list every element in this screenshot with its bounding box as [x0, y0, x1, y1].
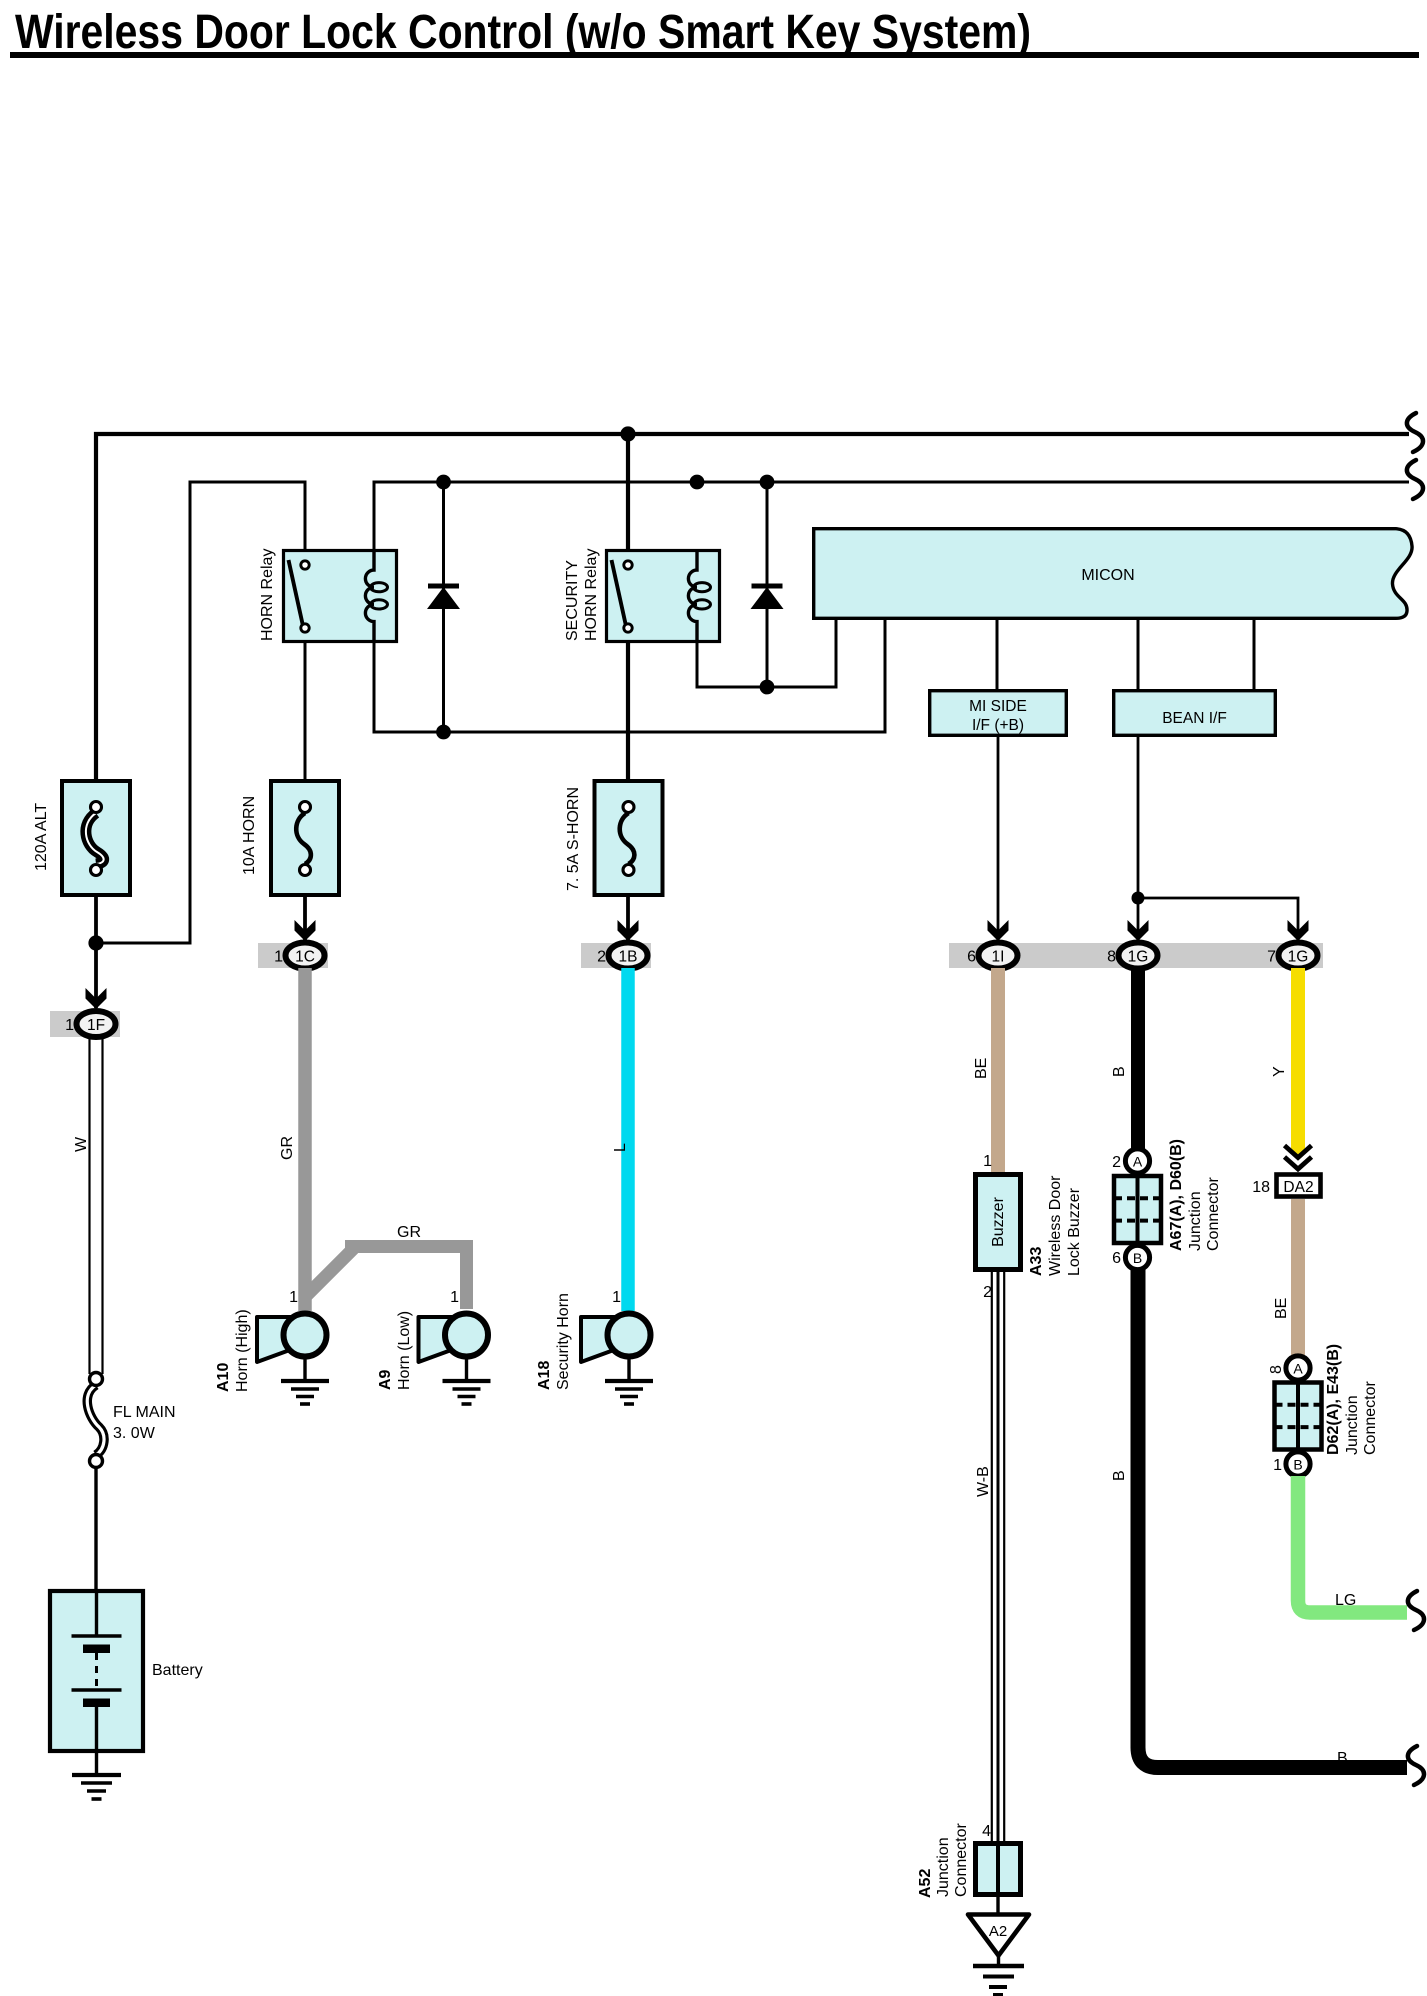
arrow into connector 1I — [988, 920, 1009, 941]
connector 1I — [979, 943, 1018, 969]
svg-text:BE: BE — [1273, 1298, 1290, 1319]
junction: diode D2 to coil return — [760, 680, 775, 695]
wire: HORN relay switch to 10A HORN fuse — [304, 632, 307, 779]
svg-text:Lock Buzzer: Lock Buzzer — [1066, 1187, 1083, 1276]
junction: +B bus to SECURITY HORN relay switch — [620, 426, 635, 441]
svg-text:A67(A), D60(B): A67(A), D60(B) — [1168, 1139, 1185, 1251]
svg-text:B: B — [1337, 1750, 1348, 1767]
break symbol: B wire right end — [1408, 1746, 1424, 1785]
wire: SECURITY HORN relay switch to 7.5A S-HORN fuse — [626, 632, 630, 779]
svg-text:8: 8 — [1268, 1365, 1285, 1374]
wire: +B bus to SECURITY HORN relay switch — [626, 434, 630, 561]
junction: BEAN I/F output branch — [1132, 892, 1145, 905]
wire B: connector 1G to junction connector A67 — [1131, 968, 1145, 1150]
svg-text:1: 1 — [65, 1017, 74, 1034]
connector 1F — [77, 1011, 116, 1037]
fusible link FL MAIN 3.0W — [87, 1373, 104, 1468]
svg-text:1F: 1F — [87, 1017, 105, 1034]
wire: FL MAIN to battery — [94, 1467, 97, 1590]
svg-text:A: A — [1133, 1154, 1143, 1170]
junction connector D62(A), E43(B) — [1268, 1356, 1322, 1476]
horn A18 (Security Horn) — [581, 1314, 651, 1363]
buzzer A33 — [976, 1175, 1021, 1270]
svg-text:LG: LG — [1335, 1592, 1356, 1609]
svg-text:1: 1 — [274, 949, 283, 966]
svg-text:DA2: DA2 — [1283, 1179, 1313, 1196]
svg-text:B: B — [1133, 1250, 1142, 1266]
connector band 1B — [581, 943, 651, 968]
ground at horn A10 — [281, 1357, 329, 1405]
svg-text:7. 5A S-HORN: 7. 5A S-HORN — [565, 787, 582, 891]
wire W-B: buzzer to A52 junction connector (white-black wire) — [992, 1272, 1004, 1841]
svg-text:4: 4 — [982, 1823, 991, 1840]
wire: 7.5A S-HORN fuse to connector 1B — [626, 897, 630, 940]
svg-text:Wireless Door: Wireless Door — [1047, 1175, 1064, 1276]
double arrow into DA2 — [1285, 1146, 1312, 1170]
svg-text:I/F (+B): I/F (+B) — [972, 717, 1024, 734]
pin B of A67 — [1125, 1245, 1149, 1269]
relay SECURITY HORN Relay switch pin top — [624, 561, 632, 569]
svg-text:B: B — [1293, 1457, 1302, 1473]
break symbol: LG wire right end — [1408, 1591, 1424, 1630]
fuse 120A ALT — [62, 781, 130, 895]
relay HORN Relay switch blade — [289, 560, 304, 626]
svg-text:BE: BE — [973, 1058, 990, 1079]
svg-text:Connector: Connector — [1205, 1177, 1222, 1251]
wire: diode D2 branch — [766, 482, 769, 687]
svg-text:Horn (Low): Horn (Low) — [396, 1311, 413, 1390]
diode D2 — [751, 584, 784, 610]
svg-text:A18: A18 — [536, 1361, 553, 1390]
svg-text:Connector: Connector — [953, 1823, 970, 1897]
wire: battery node to HORN relay switch — [96, 482, 305, 943]
break symbol: coil rail right edge — [1407, 460, 1423, 499]
fuse 10A HORN — [271, 781, 339, 895]
junction connector A67(A), D60(B) — [1112, 1149, 1161, 1270]
svg-text:120A ALT: 120A ALT — [33, 803, 50, 871]
svg-text:FL MAIN: FL MAIN — [113, 1404, 176, 1421]
relay SECURITY HORN Relay switch pin bottom — [624, 624, 632, 632]
wire: branch to connector 1G pin 7 — [1138, 898, 1298, 940]
ground symbol below A2 — [973, 1956, 1024, 1996]
svg-text:A52: A52 — [917, 1869, 934, 1898]
wire: SECURITY HORN relay coil return to MICON — [697, 620, 836, 687]
svg-text:1: 1 — [450, 1289, 459, 1306]
relay HORN Relay switch pin bottom — [301, 624, 309, 632]
horn A9 (Horn Low) — [419, 1314, 489, 1363]
svg-text:A9: A9 — [377, 1369, 394, 1390]
diode D1 — [427, 584, 460, 610]
wire GR: branch to horn A9 — [305, 1247, 467, 1310]
svg-text:1G: 1G — [1128, 949, 1149, 966]
arrow into connector 1G pin 7 — [1288, 920, 1309, 941]
svg-text:HORN Relay: HORN Relay — [259, 549, 276, 641]
svg-text:SECURITY: SECURITY — [564, 560, 581, 641]
wire Y: connector 1G to DA2 — [1291, 968, 1305, 1149]
svg-text:1B: 1B — [619, 949, 638, 966]
svg-text:B: B — [1111, 1066, 1128, 1077]
svg-text:W: W — [73, 1136, 90, 1152]
svg-text:Junction: Junction — [1344, 1395, 1361, 1455]
svg-text:Junction: Junction — [1187, 1191, 1204, 1251]
svg-text:2: 2 — [597, 949, 606, 966]
svg-text:1: 1 — [289, 1289, 298, 1306]
pin A of A67 — [1125, 1149, 1149, 1173]
break symbol: +B bus right edge — [1407, 413, 1423, 452]
wire: 120A ALT fuse to connector 1F — [94, 897, 98, 1008]
wire: MICON to BEAN I/F right pin — [1253, 620, 1256, 689]
pin A of D62 — [1286, 1356, 1310, 1380]
svg-text:HORN Relay: HORN Relay — [583, 549, 600, 641]
arrow into connector 1B — [618, 920, 639, 941]
ground point A2 — [968, 1915, 1029, 1956]
svg-text:Horn (High): Horn (High) — [234, 1309, 251, 1392]
svg-text:Security Horn: Security Horn — [555, 1293, 572, 1390]
svg-text:MI SIDE: MI SIDE — [969, 698, 1027, 715]
junction: diode D1 to coil return — [436, 725, 451, 740]
svg-text:Wireless Door Lock Control (w/: Wireless Door Lock Control (w/o Smart Ke… — [15, 6, 1031, 59]
relay SECURITY HORN Relay coil — [688, 549, 697, 643]
grid of D62 junction connector — [1275, 1383, 1322, 1450]
svg-text:Battery: Battery — [152, 1662, 203, 1679]
svg-text:Junction: Junction — [935, 1837, 952, 1897]
wire: +B bus from battery feed to right edge — [96, 434, 1409, 780]
svg-text:A33: A33 — [1028, 1247, 1045, 1276]
connector 1G pin 7 — [1279, 943, 1318, 969]
junction: rail to SECURITY relay coil — [690, 475, 705, 490]
connector band 1F — [50, 1011, 120, 1037]
svg-text:Y: Y — [1271, 1066, 1288, 1077]
svg-text:GR: GR — [279, 1136, 296, 1160]
wire: relay coil supply rail — [374, 482, 1409, 549]
svg-text:3. 0W: 3. 0W — [113, 1425, 156, 1442]
junction: battery node below 120A ALT — [88, 935, 103, 950]
wire: BEAN I/F to connector 1G pin 8 — [1137, 737, 1140, 940]
battery — [50, 1591, 143, 1751]
box MI SIDE I/F (+B) — [930, 691, 1067, 736]
svg-text:GR: GR — [397, 1224, 421, 1241]
box BEAN I/F — [1114, 691, 1276, 736]
wire: 10A HORN fuse to connector 1C — [303, 897, 307, 940]
junction connector A52 — [976, 1844, 1021, 1895]
IC MICON — [814, 529, 1412, 619]
relay HORN Relay switch pin top — [301, 561, 309, 569]
svg-text:W-B: W-B — [975, 1466, 992, 1497]
pin B of D62 — [1286, 1452, 1310, 1476]
arrow into connector 1G pin 8 — [1128, 920, 1149, 941]
relay HORN Relay coil — [365, 549, 374, 643]
ground at horn A18 — [605, 1357, 653, 1405]
svg-text:Connector: Connector — [1362, 1381, 1379, 1455]
wire B: junction connector A67 to ground splice — [1138, 1269, 1407, 1768]
svg-text:D62(A), E43(B): D62(A), E43(B) — [1325, 1344, 1342, 1455]
arrow into connector 1C — [295, 920, 316, 941]
svg-text:2: 2 — [1112, 1154, 1121, 1171]
relay SECURITY HORN Relay — [607, 549, 720, 643]
wire: A52 to ground A2 — [996, 1897, 999, 1914]
wire BE: DA2 to junction connector D62 — [1291, 1199, 1305, 1355]
svg-text:A2: A2 — [989, 1923, 1007, 1940]
svg-text:L: L — [612, 1143, 629, 1152]
wire: diode D1 branch — [442, 482, 445, 732]
wire L: connector 1B to security horn A18 — [621, 968, 635, 1311]
junction: rail to diode D2 — [760, 475, 775, 490]
wire BE: connector 1I to buzzer — [991, 968, 1005, 1172]
wire LG: junction connector D62 to right edge — [1298, 1476, 1407, 1613]
junction: rail to diode D1 — [436, 475, 451, 490]
svg-text:1: 1 — [983, 1153, 992, 1170]
wire: MI SIDE I/F to connector 1I — [997, 737, 1000, 940]
svg-text:1: 1 — [1273, 1457, 1282, 1474]
svg-text:BEAN I/F: BEAN I/F — [1162, 710, 1227, 727]
connector 1G pin 8 — [1119, 943, 1158, 969]
svg-text:10A HORN: 10A HORN — [241, 796, 258, 875]
wire: HORN relay coil return to MICON — [374, 620, 885, 732]
connector 1C — [286, 943, 325, 969]
grid of A67 junction connector — [1114, 1176, 1161, 1243]
connector 1B — [609, 943, 648, 969]
svg-text:7: 7 — [1267, 949, 1276, 966]
svg-text:A10: A10 — [215, 1363, 232, 1392]
title — [10, 6, 1419, 59]
svg-text:A: A — [1293, 1361, 1303, 1377]
svg-text:1I: 1I — [992, 949, 1005, 966]
svg-text:18: 18 — [1252, 1179, 1270, 1196]
wire GR: connector 1C to horn A10 — [298, 968, 312, 1311]
svg-text:1G: 1G — [1288, 949, 1309, 966]
svg-text:6: 6 — [1112, 1250, 1121, 1267]
wire: MICON to BEAN I/F left pin — [1137, 620, 1140, 689]
svg-text:1C: 1C — [295, 949, 315, 966]
arrow into connector 1F — [86, 988, 107, 1009]
ground at horn A9 — [443, 1357, 491, 1405]
connector DA2 — [1277, 1175, 1321, 1197]
relay HORN Relay — [284, 549, 397, 643]
wire: MICON to MI SIDE I/F — [996, 620, 999, 689]
svg-text:Buzzer: Buzzer — [990, 1196, 1007, 1246]
svg-text:B: B — [1111, 1470, 1128, 1481]
horn A10 (Horn High) — [257, 1314, 327, 1363]
svg-text:6: 6 — [967, 949, 976, 966]
ground at battery — [72, 1751, 121, 1799]
connector band 1I/1G/1G — [949, 943, 1323, 968]
relay SECURITY HORN Relay switch blade — [612, 560, 627, 626]
svg-text:8: 8 — [1107, 949, 1116, 966]
svg-text:1: 1 — [612, 1289, 621, 1306]
wire W: connector 1F to FL MAIN (white wire) — [90, 1037, 103, 1374]
fuse 7.5A S-HORN — [595, 781, 663, 895]
connector band 1C — [258, 943, 328, 968]
svg-text:MICON: MICON — [1081, 567, 1134, 584]
